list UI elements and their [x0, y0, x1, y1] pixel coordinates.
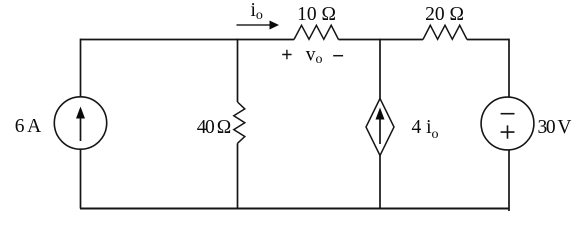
resistor 40 Ω zigzag [234, 102, 245, 143]
current source 6 A [54, 97, 106, 149]
svg-text:6 A: 6 A [15, 116, 42, 137]
wire 40Ω branch upper [237, 39, 239, 102]
wire left branch upper [80, 39, 82, 97]
wire left branch lower [80, 149, 82, 208]
svg-text:io: io [251, 0, 263, 23]
voltage source 30 V [481, 97, 534, 150]
svg-text:4 io: 4 io [412, 117, 439, 142]
label + v_o - [282, 45, 343, 67]
svg-text:vo: vo [306, 45, 323, 67]
wire bottom [80, 208, 509, 210]
current arrow i_o [237, 21, 280, 30]
dependent current source 4 i_o diamond [366, 99, 394, 156]
svg-text:20 Ω: 20 Ω [425, 4, 464, 25]
wire top middle segment [339, 39, 424, 41]
wire right branch lower [508, 150, 510, 211]
svg-text:10 Ω: 10 Ω [297, 4, 336, 25]
resistor 10 Ω zigzag [294, 25, 339, 39]
wire top left segment [80, 39, 294, 41]
wire top right segment [467, 39, 509, 41]
wire middle branch lower [379, 156, 381, 209]
svg-text:40 Ω: 40 Ω [197, 117, 232, 138]
svg-text:30 V: 30 V [538, 117, 572, 138]
wire right branch upper [508, 39, 510, 98]
resistor 20 Ω zigzag [423, 25, 467, 39]
wire 40Ω branch lower [237, 143, 239, 208]
wire middle branch upper [379, 39, 381, 99]
